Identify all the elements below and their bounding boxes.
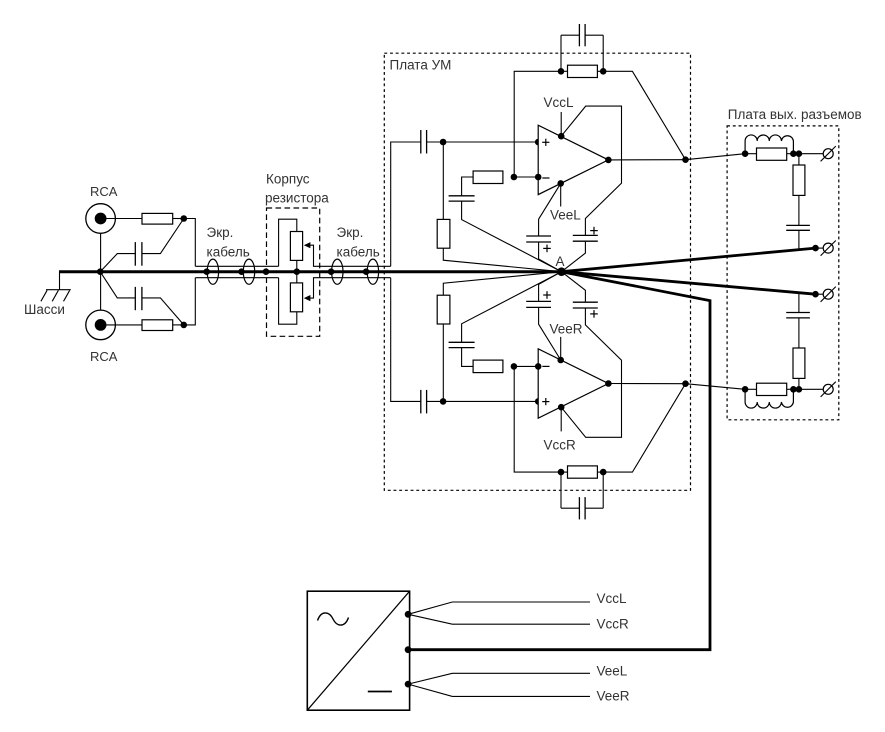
wire C14 to R11 xyxy=(798,318,800,348)
node R7 right xyxy=(600,469,607,476)
node L input xyxy=(181,215,188,222)
capacitor C4 (L feedback cap) xyxy=(560,35,562,71)
wire minus to feedback node xyxy=(514,176,538,178)
resistor R9 (L damp) xyxy=(757,148,787,160)
wire R signal in cable 1 xyxy=(195,277,278,279)
node ground junction at RCA xyxy=(97,268,104,275)
node L plus net xyxy=(440,139,447,146)
wire C11 to ground A xyxy=(539,272,562,302)
node U2 plus pin xyxy=(535,398,542,405)
wire R7 leads xyxy=(561,471,568,473)
wire to opamp U2 plus xyxy=(443,400,538,402)
resistor R12 (R damp) xyxy=(757,383,787,395)
amp board dotted box xyxy=(384,53,690,490)
wire VccR feed xyxy=(408,614,590,624)
connector terminal 4 xyxy=(823,384,833,394)
resistor R2 xyxy=(142,320,173,331)
wire L gain network xyxy=(462,177,474,196)
node R4 left xyxy=(558,68,565,75)
node L feedback tap xyxy=(511,174,518,181)
node L network right xyxy=(790,150,797,157)
capacitor C9 (R feedback cap) xyxy=(560,472,562,508)
capacitor C2 (bottom RCA filter) xyxy=(134,287,136,310)
wire ground to C1 xyxy=(100,254,135,272)
capacitor C12 (VccR decoupling) xyxy=(573,301,598,303)
psu divider diagonal xyxy=(307,591,409,710)
capacitor C6 (VccL decoupling) xyxy=(573,234,598,236)
wire C8 to node xyxy=(427,400,444,402)
node psu ground terminal xyxy=(405,646,412,653)
resistor R7 (R feedback) xyxy=(568,466,598,478)
wire L bias drop xyxy=(442,142,444,219)
node U1 plus pin xyxy=(535,139,542,146)
capacitor C1 (top RCA filter) xyxy=(134,242,136,266)
wire L input down to cable xyxy=(184,219,196,267)
wiper arrow RV2 xyxy=(304,295,311,301)
op-amp U2 (R) xyxy=(538,349,608,418)
node connector 3 junction xyxy=(812,291,819,298)
wire U1 output xyxy=(608,159,685,161)
svg-text:RCA: RCA xyxy=(90,349,118,364)
wire C12 to ground A xyxy=(562,272,586,303)
wire feedback dropper R xyxy=(514,366,561,472)
wire zobel L upper xyxy=(798,154,800,165)
svg-text:VeeL: VeeL xyxy=(550,208,581,223)
wire C2 to R node xyxy=(142,298,184,325)
wire R4 to output diagonal xyxy=(603,71,685,159)
wire R6 to ground A xyxy=(443,272,561,296)
capacitor C8 (R input coupling) xyxy=(420,390,422,414)
capacitor C13 (L zobel) xyxy=(786,224,810,226)
node U2 output xyxy=(605,380,612,387)
svg-text:VeeR: VeeR xyxy=(550,322,583,337)
wire VccL feed xyxy=(408,602,590,614)
wire R in to pot bottom xyxy=(279,278,297,325)
wire main ground bus xyxy=(59,270,562,273)
node R4 right xyxy=(600,68,607,75)
wire to connector 1 xyxy=(799,153,823,155)
node R7 left xyxy=(558,469,565,476)
node R feedback tap xyxy=(511,363,518,370)
wire zobel R lower xyxy=(798,378,800,389)
wire RCA top pin to R1 xyxy=(107,218,143,220)
node L zobel tap xyxy=(796,150,803,157)
resistor R4 (L feedback) xyxy=(568,65,598,77)
resistor R6 (R bias) xyxy=(437,295,450,324)
svg-text:VeeR: VeeR xyxy=(597,689,630,704)
wire VccL stub xyxy=(560,112,562,136)
wiper arrow RV1 xyxy=(304,242,311,248)
wire VccR stub xyxy=(560,407,562,431)
wire R10 to C13 xyxy=(798,195,800,225)
svg-text:кабель: кабель xyxy=(207,245,250,260)
wire RV2 to ground xyxy=(296,272,298,283)
wire R2 to node xyxy=(173,324,184,326)
capacitor C10 (R gain) xyxy=(449,341,475,343)
wire ground line to C14 xyxy=(798,293,800,313)
node U1 output xyxy=(605,157,612,164)
node R input xyxy=(181,322,188,329)
wire R7 to output diagonal xyxy=(603,384,685,472)
svg-text:A: A xyxy=(556,254,565,269)
node pot ground xyxy=(294,268,301,275)
wire to opamp U1 plus xyxy=(443,141,538,143)
capacitor C11 (VeeR decoupling) xyxy=(526,300,551,302)
svg-text:Плата вых. разъемов: Плата вых. разъемов xyxy=(728,107,862,122)
wire C10 to ground A xyxy=(462,272,562,343)
svg-text:RCA: RCA xyxy=(90,184,118,199)
node shield tap 2 xyxy=(238,268,245,275)
node shield tap 1 xyxy=(203,268,210,275)
psu AC sine symbol xyxy=(318,613,349,625)
svg-text:VccL: VccL xyxy=(597,591,628,606)
inductor L1 xyxy=(745,135,793,154)
node U1 VeeL pin xyxy=(557,180,564,187)
node psu positive terminal xyxy=(405,611,412,618)
wire L signal into amp xyxy=(391,142,421,266)
wire L output to connector board xyxy=(686,154,746,160)
node A star ground xyxy=(557,267,566,276)
capacitor C14 (R zobel) xyxy=(786,312,810,314)
potentiometer RV2 element xyxy=(290,283,302,312)
op-amp U1 (L) xyxy=(538,125,608,194)
wire R4 leads xyxy=(561,70,568,72)
inductor L2 xyxy=(745,389,793,408)
wire R9 leads xyxy=(745,153,756,155)
node R output at board edge xyxy=(682,380,689,387)
node psu negative terminal xyxy=(405,681,412,688)
node U2 minus pin xyxy=(535,363,542,370)
wire to connector 2 xyxy=(816,247,824,249)
resistor R1 xyxy=(142,213,173,224)
wire RV2 wiper out xyxy=(310,278,391,298)
wire C3 to node xyxy=(427,141,444,143)
wire L in to pot top xyxy=(279,219,297,266)
capacitor C7 (VeeL decoupling) xyxy=(526,235,551,237)
svg-text:Экр.: Экр. xyxy=(337,225,364,240)
wire R gain network xyxy=(462,348,474,367)
wire RCA shields to bus xyxy=(100,233,102,310)
node L output at board edge xyxy=(682,156,689,163)
node U2 VccR pin xyxy=(558,404,565,411)
resistor R10 (L zobel) xyxy=(793,165,805,195)
svg-text:резистора: резистора xyxy=(265,191,329,206)
wire R bias riser xyxy=(442,324,444,401)
svg-text:VeeL: VeeL xyxy=(597,664,628,679)
connector terminal 1 xyxy=(823,149,833,159)
wire VeeR feed xyxy=(408,684,590,696)
shield ellipse 2 xyxy=(243,259,254,284)
connector terminal 3 xyxy=(823,289,833,299)
svg-text:Шасси: Шасси xyxy=(24,302,65,317)
wire RV1 wiper out xyxy=(310,245,391,266)
capacitor C3 (L input coupling) xyxy=(420,130,422,154)
svg-text:Корпус: Корпус xyxy=(266,172,310,187)
connector terminal 2 xyxy=(823,243,833,253)
node R network left xyxy=(742,386,749,393)
node U2 VeeR pin xyxy=(557,357,564,364)
wire chassis drop xyxy=(59,272,61,290)
wire ground to C2 xyxy=(100,272,135,298)
shield ellipse 1 xyxy=(207,259,218,284)
wire to connector 4 xyxy=(799,388,823,390)
psu DC minus symbol xyxy=(368,691,392,693)
wire C6 to ground A xyxy=(562,241,586,272)
svg-text:кабель: кабель xyxy=(337,245,380,260)
capacitor C5 (L gain) xyxy=(449,195,475,197)
wire to connector 3 xyxy=(816,293,824,295)
power supply unit box xyxy=(307,591,409,710)
resistor R3 (L bias) xyxy=(437,219,450,248)
wire L signal in cable 1 xyxy=(195,265,278,267)
svg-text:VccL: VccL xyxy=(544,95,575,110)
wire feedback riser L xyxy=(514,71,561,177)
wire ground A to connector 3 xyxy=(562,272,816,295)
wire VeeL feed xyxy=(408,673,590,684)
node shield tap 3 xyxy=(328,268,335,275)
ground chassis symbol xyxy=(46,289,71,291)
wire VeeR stub xyxy=(560,337,562,360)
wire minus to feedback node R xyxy=(514,365,538,367)
node U1 minus pin xyxy=(535,174,542,181)
node shield to box xyxy=(263,268,270,275)
resistor R8 (R gain) xyxy=(473,360,503,373)
wire C13 to ground line xyxy=(798,230,800,250)
wire R input up to cable xyxy=(184,278,196,325)
svg-text:VccR: VccR xyxy=(544,438,577,453)
wire psu ground return to node A xyxy=(408,272,710,650)
svg-text:VccR: VccR xyxy=(597,617,630,632)
wire VccR to C12 xyxy=(561,308,621,437)
wire R3 to ground A xyxy=(443,248,561,272)
svg-text:Экр.: Экр. xyxy=(207,225,234,240)
wire R signal into amp xyxy=(391,278,421,402)
potentiometer RV1 element xyxy=(290,232,302,261)
resistor R5 (L gain) xyxy=(473,171,503,184)
wire R12 leads xyxy=(745,388,756,390)
wire VeeL stub xyxy=(560,183,562,206)
wire VeeL to C7 xyxy=(539,183,561,236)
output board dotted box xyxy=(727,126,839,420)
wire R output to connector board xyxy=(686,384,746,390)
wire C7 to ground A xyxy=(539,242,562,272)
wire VeeR to C11 xyxy=(539,307,561,360)
wire RV1 to ground xyxy=(296,260,298,271)
wire C1 to L node xyxy=(142,219,184,254)
node U1 VccL pin xyxy=(558,133,565,140)
wire VccL to C6 xyxy=(561,106,621,235)
connector RCA bottom (J2) xyxy=(86,310,116,340)
shield ellipse 4 xyxy=(367,259,378,284)
wire R1 to node xyxy=(173,218,184,220)
node L network left xyxy=(742,150,749,157)
wire U2 output xyxy=(608,383,685,385)
node shield tap 4 xyxy=(363,268,370,275)
wire C5 to ground A xyxy=(462,201,562,272)
resistor body dashed box xyxy=(267,208,320,336)
shield ellipse 3 xyxy=(332,259,343,284)
node R plus net xyxy=(440,398,447,405)
resistor R11 (R zobel) xyxy=(793,348,805,378)
node connector 2 junction xyxy=(812,245,819,252)
wire ground A to connector 2 xyxy=(562,248,816,272)
node R network right xyxy=(790,386,797,393)
node R zobel tap xyxy=(796,386,803,393)
connector RCA top (J1) xyxy=(86,204,116,234)
svg-text:Плата УМ: Плата УМ xyxy=(390,58,452,73)
wire RCA bottom pin to R2 xyxy=(107,324,143,326)
